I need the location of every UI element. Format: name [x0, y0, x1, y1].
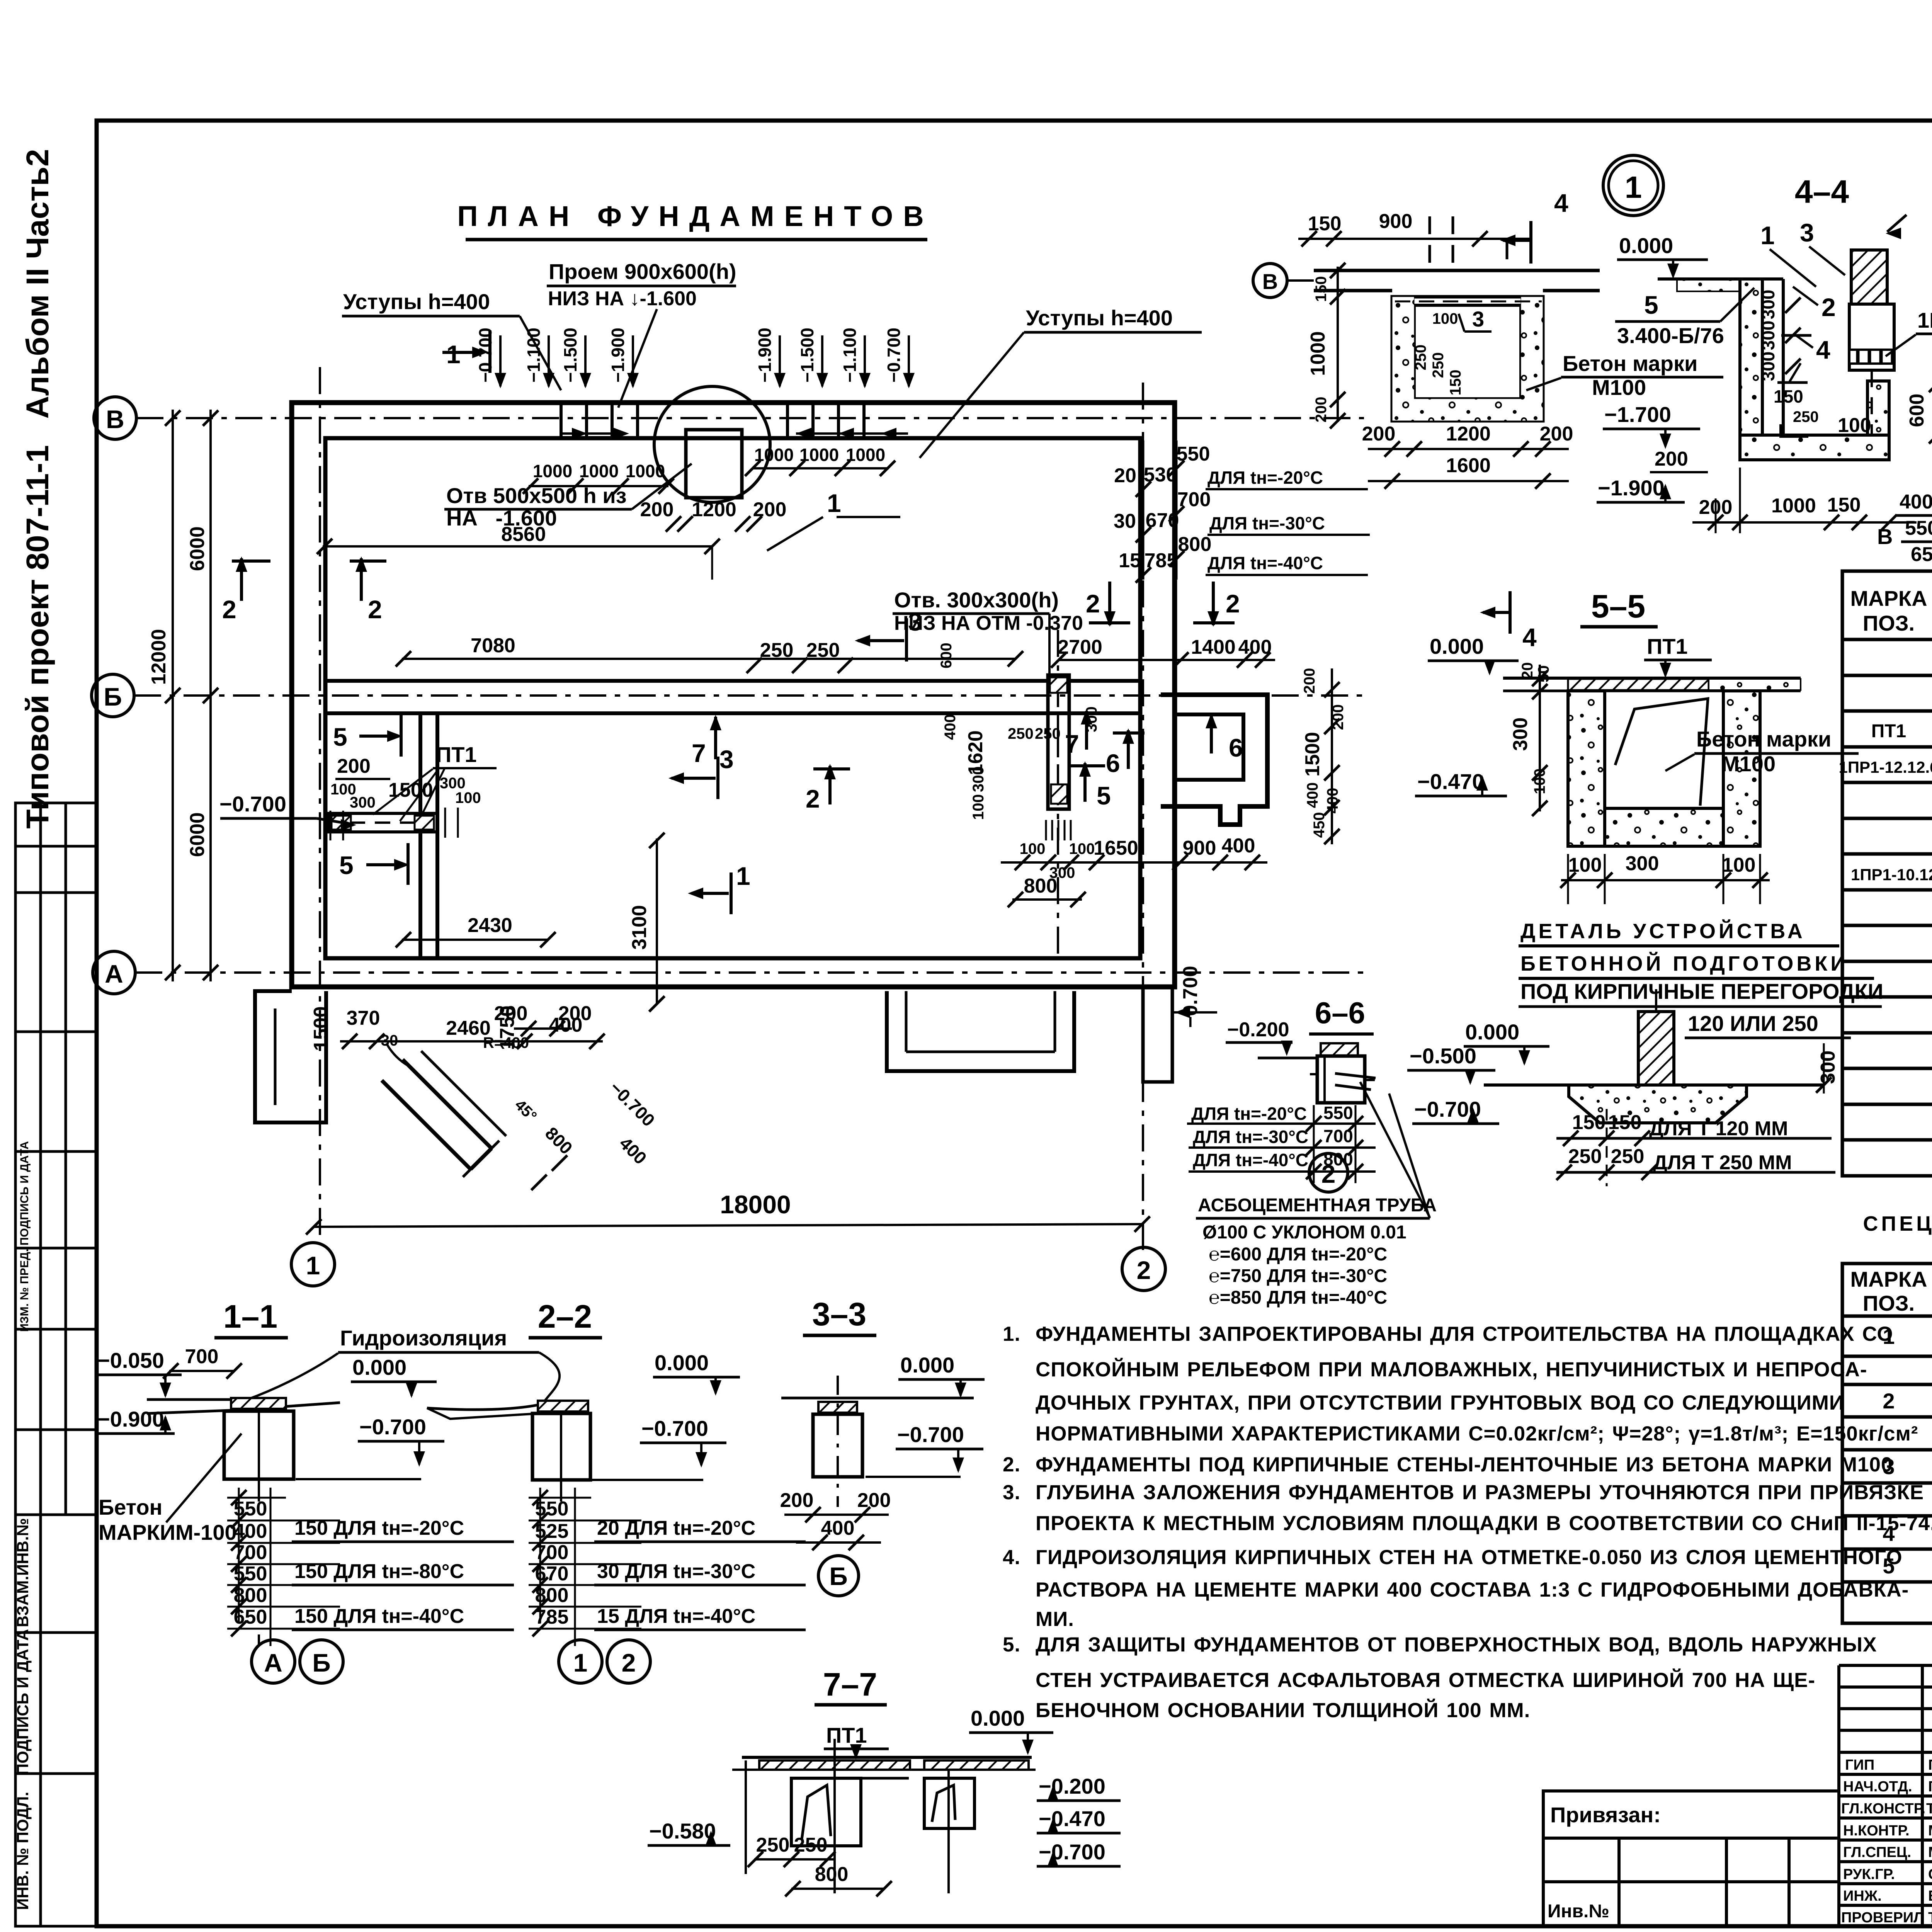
svg-text:250: 250 — [760, 639, 794, 662]
right porch — [887, 991, 1074, 1071]
left dim chain — [1337, 267, 1339, 422]
svg-text:А: А — [105, 959, 123, 988]
svg-text:7080: 7080 — [471, 634, 515, 657]
svg-text:1: 1 — [1760, 221, 1775, 250]
svg-text:250: 250 — [1568, 1145, 1602, 1168]
svg-text:ПТ1: ПТ1 — [1647, 634, 1688, 658]
svg-text:18000: 18000 — [720, 1190, 791, 1219]
svg-text:800: 800 — [1024, 875, 1058, 897]
svg-text:−0.580: −0.580 — [649, 1819, 716, 1843]
ground — [781, 1397, 974, 1400]
axis circle B detail — [1253, 264, 1287, 298]
svg-text:650-ДЛЯ t=-40°C: 650-ДЛЯ t=-40°C — [1911, 543, 1932, 566]
svg-text:800: 800 — [535, 1584, 569, 1607]
dim ladder s1 — [227, 1488, 340, 1646]
axis circle Б — [92, 674, 134, 717]
svg-text:100: 100 — [455, 789, 481, 806]
svg-text:3–3: 3–3 — [812, 1296, 866, 1332]
svg-text:−1.500: −1.500 — [797, 328, 817, 383]
svg-text:−0.500: −0.500 — [1410, 1044, 1476, 1068]
svg-text:2: 2 — [622, 1648, 636, 1677]
dim ladder s2 — [529, 1488, 641, 1646]
svg-text:ТЕЛЯКОВСКИЙ: ТЕЛЯКОВСКИЙ — [1926, 1799, 1932, 1817]
svg-text:200: 200 — [640, 498, 674, 521]
wall below Б x1100 — [418, 713, 422, 958]
svg-text:150: 150 — [1447, 370, 1464, 396]
svg-text:℮=750 ДЛЯ tн=-30°С: ℮=750 ДЛЯ tн=-30°С — [1209, 1266, 1387, 1286]
svg-text:4.: 4. — [1003, 1546, 1020, 1569]
svg-text:НАЧ.ОТД.: НАЧ.ОТД. — [1843, 1779, 1912, 1795]
svg-text:ДЕТАЛЬ УСТРОЙСТВА: ДЕТАЛЬ УСТРОЙСТВА — [1520, 919, 1806, 943]
svg-text:300: 300 — [970, 766, 987, 792]
svg-text:300: 300 — [350, 794, 376, 811]
svg-text:400: 400 — [1222, 835, 1255, 857]
svg-text:250: 250 — [1008, 725, 1034, 742]
svg-text:НОРМАТИВНЫМИ ХАРАКТЕРИСТИКАМИ: НОРМАТИВНЫМИ ХАРАКТЕРИСТИКАМИ С=0.02кг/с… — [1036, 1422, 1918, 1445]
svg-text:Бетон: Бетон — [99, 1495, 162, 1519]
ground line — [1484, 1083, 1638, 1087]
svg-text:В: В — [106, 405, 124, 434]
svg-text:ПОДПИСЬ И ДАТА: ПОДПИСЬ И ДАТА — [14, 1629, 32, 1775]
svg-text:550-ДЛЯt=-30°C: 550-ДЛЯt=-30°C — [1905, 517, 1932, 539]
svg-text:7: 7 — [692, 739, 706, 767]
svg-text:400: 400 — [942, 714, 959, 740]
top slab — [1503, 677, 1801, 680]
svg-text:ДЛЯ Т 120 ММ: ДЛЯ Т 120 ММ — [1649, 1117, 1788, 1140]
TITLE-BLOCK — [1543, 1665, 1932, 1932]
axis circle 1 — [291, 1243, 335, 1286]
elevation arrows group2 — [780, 335, 909, 386]
partition dashed above — [1430, 216, 1507, 270]
svg-text:НИЗ НА ОТМ -0.370: НИЗ НА ОТМ -0.370 — [894, 612, 1083, 634]
SPEC-TABLE — [0, 0, 0, 0]
svg-text:Типовой проект 807-11-1 Альб: Типовой проект 807-11-1 Альбом II Часть2 — [20, 149, 55, 828]
circle B — [818, 1556, 859, 1596]
ground lines — [147, 1398, 230, 1401]
svg-text:БЕТОННОЙ ПОДГОТОВКИ: БЕТОННОЙ ПОДГОТОВКИ — [1520, 952, 1849, 975]
svg-text:ПОЗ.: ПОЗ. — [1863, 1291, 1915, 1315]
svg-text:550: 550 — [535, 1498, 569, 1520]
svg-text:200: 200 — [857, 1489, 891, 1512]
diagonal drain channel — [403, 1060, 492, 1148]
ref circle 1 — [1603, 155, 1663, 216]
svg-text:−1.700: −1.700 — [1604, 402, 1671, 427]
svg-text:6–6: 6–6 — [1315, 996, 1365, 1030]
svg-text:ДЛЯ tн=-30°С: ДЛЯ tн=-30°С — [1193, 1127, 1308, 1147]
svg-text:1–1: 1–1 — [223, 1298, 277, 1335]
circles 1 2 — [559, 1640, 602, 1683]
svg-text:ТАИРОВА: ТАИРОВА — [1928, 1910, 1932, 1926]
privjazan box — [1543, 1791, 1839, 1926]
svg-text:ГИДРОИЗОЛЯЦИЯ КИРПИЧНЫХ СТЕН: ГИДРОИЗОЛЯЦИЯ КИРПИЧНЫХ СТЕН НА ОТМЕТКЕ-… — [1036, 1546, 1903, 1569]
svg-text:700: 700 — [234, 1541, 267, 1564]
svg-text:200: 200 — [780, 1489, 814, 1512]
svg-text:200: 200 — [1655, 448, 1688, 470]
svg-text:−0.050: −0.050 — [97, 1348, 164, 1372]
svg-text:1500: 1500 — [1301, 732, 1324, 777]
svg-text:1ПР1-10.12.6: 1ПР1-10.12.6 — [1851, 866, 1932, 884]
svg-text:370: 370 — [347, 1007, 380, 1029]
svg-text:Бетон марки: Бетон марки — [1563, 351, 1697, 376]
svg-text:ФУНДАМЕНТЫ ЗАПРОЕКТИРОВАНЫ Д: ФУНДАМЕНТЫ ЗАПРОЕКТИРОВАНЫ ДЛЯ СТРОИТЕЛЬ… — [1036, 1323, 1893, 1345]
svg-text:30 ДЛЯ tн=-30°C: 30 ДЛЯ tн=-30°C — [597, 1560, 755, 1583]
svg-text:ДЛЯ tн=-40°С: ДЛЯ tн=-40°С — [1193, 1150, 1308, 1170]
svg-text:800: 800 — [815, 1863, 849, 1886]
svg-text:5: 5 — [1097, 781, 1111, 810]
svg-text:250: 250 — [1793, 408, 1819, 425]
svg-text:МАРКОВ: МАРКОВ — [1928, 1844, 1932, 1861]
svg-text:785: 785 — [535, 1606, 569, 1628]
svg-text:700: 700 — [185, 1345, 219, 1368]
svg-text:ПОЗ.: ПОЗ. — [1863, 611, 1915, 635]
SECTION-7-7 — [648, 1666, 1121, 1896]
svg-text:1650: 1650 — [1094, 837, 1138, 859]
svg-text:300: 300 — [1509, 718, 1532, 751]
svg-text:7: 7 — [1065, 730, 1079, 758]
svg-text:0.000: 0.000 — [900, 1353, 954, 1377]
svg-text:400: 400 — [234, 1520, 267, 1543]
svg-text:300: 300 — [1626, 852, 1659, 875]
svg-text:R=400: R=400 — [483, 1034, 529, 1051]
svg-text:℮=600 ДЛЯ tн=-20°С: ℮=600 ДЛЯ tн=-20°С — [1209, 1244, 1387, 1265]
svg-text:12000: 12000 — [148, 629, 170, 685]
foundation block s2 — [538, 1401, 588, 1412]
svg-text:400-ДЛЯtн=-20°C: 400-ДЛЯtн=-20°C — [1900, 491, 1932, 513]
svg-text:−0.700: −0.700 — [1179, 966, 1202, 1028]
svg-text:ГОРБУНОВ: ГОРБУНОВ — [1928, 1779, 1932, 1795]
broken plate symbol — [1615, 699, 1708, 806]
signature table — [1839, 1665, 1932, 1926]
svg-text:0.000: 0.000 — [971, 1706, 1025, 1730]
svg-text:1000: 1000 — [579, 461, 619, 481]
upper stamp grid — [15, 803, 97, 1515]
svg-text:ПРОВЕРИЛ: ПРОВЕРИЛ — [1841, 1910, 1924, 1926]
axis circle 2 — [1122, 1247, 1165, 1291]
wall step lines — [561, 403, 864, 438]
svg-text:250: 250 — [1430, 352, 1447, 378]
svg-text:ПОД КИРПИЧНЫЕ ПЕРЕГОРОДКИ: ПОД КИРПИЧНЫЕ ПЕРЕГОРОДКИ — [1520, 979, 1883, 1003]
svg-text:2430: 2430 — [468, 914, 512, 937]
svg-text:100: 100 — [1432, 310, 1458, 327]
svg-text:ДЛЯ tн=-20°С: ДЛЯ tн=-20°С — [1207, 468, 1323, 488]
svg-text:2: 2 — [1821, 293, 1836, 321]
svg-text:3: 3 — [1472, 307, 1484, 331]
DETAIL-PREP — [1407, 919, 1883, 1186]
SECTION-6-6 — [1187, 996, 1430, 1217]
svg-text:Бетон марки: Бетон марки — [1696, 727, 1831, 751]
svg-text:2: 2 — [1226, 589, 1240, 618]
svg-text:−0.900: −0.900 — [97, 1407, 164, 1431]
svg-text:1400: 1400 — [1191, 636, 1236, 658]
leader to asbestos — [1360, 1082, 1430, 1217]
svg-text:20: 20 — [1519, 662, 1536, 680]
axis Б wall — [325, 679, 1140, 683]
svg-text:400: 400 — [1304, 782, 1321, 808]
svg-text:5.: 5. — [1003, 1633, 1020, 1656]
svg-text:1: 1 — [573, 1648, 588, 1677]
svg-text:100: 100 — [1722, 854, 1756, 876]
svg-text:МАРКА: МАРКА — [1850, 1267, 1927, 1291]
svg-text:1: 1 — [736, 862, 750, 890]
concrete pad — [1569, 1085, 1747, 1123]
svg-text:1000: 1000 — [626, 461, 665, 481]
svg-text:БЕНОЧНОМ ОСНОВАНИИ ТОЛЩИНОЙ: БЕНОЧНОМ ОСНОВАНИИ ТОЛЩИНОЙ 100 ММ. — [1036, 1698, 1530, 1722]
block — [1321, 1043, 1358, 1056]
svg-text:−0.700: −0.700 — [1039, 1840, 1105, 1864]
svg-text:СПОКОЙНЫМ РЕЛЬЕФОМ ПРИ МАЛОВ: СПОКОЙНЫМ РЕЛЬЕФОМ ПРИ МАЛОВАЖНЫХ, НЕПУЧ… — [1036, 1357, 1867, 1381]
svg-text:−1.100: −1.100 — [524, 328, 544, 383]
svg-text:20: 20 — [1114, 464, 1136, 487]
svg-text:200: 200 — [1540, 423, 1573, 445]
svg-text:400: 400 — [549, 1014, 583, 1036]
vertical canal with PT1 — [1048, 675, 1069, 809]
svg-text:100: 100 — [970, 794, 987, 820]
right lower step — [1143, 987, 1172, 1082]
svg-text:ИНЖ.: ИНЖ. — [1843, 1888, 1882, 1904]
NOTES — [1003, 1323, 1932, 1722]
svg-text:150: 150 — [1308, 213, 1342, 235]
svg-text:150 ДЛЯ tн=-20°С: 150 ДЛЯ tн=-20°С — [294, 1517, 464, 1539]
svg-text:6: 6 — [1229, 733, 1243, 762]
svg-text:1ПР1-12.12.6: 1ПР1-12.12.6 — [1917, 308, 1932, 332]
svg-text:600: 600 — [938, 643, 955, 668]
svg-text:ДОЧНЫХ ГРУНТАХ, ПРИ ОТСУТСТВ: ДОЧНЫХ ГРУНТАХ, ПРИ ОТСУТСТВИИ ГРУНТОВЫХ… — [1036, 1391, 1844, 1414]
left channel — [791, 1778, 861, 1846]
svg-text:120 ИЛИ 250: 120 ИЛИ 250 — [1688, 1011, 1818, 1036]
svg-text:СТЕН УСТРАИВАЕТСЯ АСФАЛЬТОВА: СТЕН УСТРАИВАЕТСЯ АСФАЛЬТОВАЯ ОТМЕСТКА Ш… — [1036, 1668, 1815, 1692]
svg-text:ГЛ.КОНСТР.: ГЛ.КОНСТР. — [1841, 1801, 1925, 1817]
svg-text:6000: 6000 — [186, 812, 209, 857]
svg-text:0.000: 0.000 — [655, 1350, 709, 1375]
svg-text:250: 250 — [806, 639, 840, 662]
svg-text:300: 300 — [1758, 352, 1778, 381]
svg-text:900: 900 — [1379, 210, 1413, 233]
floor slab — [1314, 269, 1600, 272]
svg-text:−0.200: −0.200 — [1227, 1019, 1289, 1041]
svg-text:В: В — [1262, 269, 1278, 294]
svg-text:−0.700: −0.700 — [884, 328, 904, 383]
svg-text:550: 550 — [234, 1498, 267, 1520]
svg-text:1: 1 — [1625, 170, 1642, 204]
svg-text:200: 200 — [1313, 397, 1330, 423]
svg-text:3.400-Б/76: 3.400-Б/76 — [1617, 323, 1724, 348]
grid — [1842, 1264, 1932, 1623]
svg-text:4: 4 — [1554, 189, 1568, 217]
svg-text:−0.470: −0.470 — [1417, 769, 1484, 794]
canal box — [1392, 297, 1543, 421]
svg-text:150: 150 — [1827, 494, 1861, 516]
svg-text:15: 15 — [1119, 549, 1141, 572]
svg-text:100: 100 — [1568, 854, 1602, 876]
top slabs — [742, 1756, 1032, 1759]
PLAN-ANNOT — [148, 200, 1437, 1308]
svg-text:ИНВ. № ПОДЛ.: ИНВ. № ПОДЛ. — [14, 1792, 32, 1910]
verticals — [745, 1760, 747, 1874]
svg-text:НИЗ НА ↓-1.600: НИЗ НА ↓-1.600 — [548, 287, 697, 310]
svg-text:Проем 900х600(h): Проем 900х600(h) — [549, 259, 736, 284]
SPEC-TABLE — [1838, 519, 1932, 1176]
svg-text:ГЛ.СПЕЦ.: ГЛ.СПЕЦ. — [1843, 1844, 1911, 1861]
inner wall line — [325, 438, 1140, 958]
svg-text:Уступы h=400: Уступы h=400 — [1026, 306, 1173, 330]
svg-text:ДЛЯ tн=-40°С: ДЛЯ tн=-40°С — [1207, 553, 1323, 573]
axis circle B — [94, 397, 136, 439]
svg-text:2: 2 — [806, 784, 820, 813]
svg-text:Привязан:: Привязан: — [1550, 1803, 1661, 1827]
svg-text:−0.700: −0.700 — [359, 1415, 426, 1439]
channel U walls — [1568, 691, 1605, 846]
svg-text:0.000: 0.000 — [352, 1355, 406, 1379]
svg-text:−1.100: −1.100 — [840, 328, 860, 383]
svg-text:РУК.ГР.: РУК.ГР. — [1843, 1866, 1895, 1883]
svg-text:2: 2 — [1086, 589, 1100, 618]
SECTION-5-5 — [1415, 588, 1859, 904]
left porch — [255, 991, 326, 1122]
svg-text:650: 650 — [234, 1606, 267, 1628]
svg-text:2: 2 — [1883, 1389, 1895, 1413]
svg-text:−0.700: −0.700 — [475, 328, 495, 383]
Proem circle — [654, 386, 770, 502]
svg-text:ГЛУБИНА ЗАЛОЖЕНИЯ ФУНДАМЕНТО: ГЛУБИНА ЗАЛОЖЕНИЯ ФУНДАМЕНТОВ И РАЗМЕРЫ … — [1036, 1481, 1924, 1504]
svg-text:7–7: 7–7 — [823, 1666, 877, 1702]
svg-text:1.: 1. — [1003, 1323, 1020, 1345]
svg-text:700: 700 — [535, 1541, 569, 1564]
svg-text:100: 100 — [1020, 840, 1046, 857]
svg-text:Уступы h=400: Уступы h=400 — [343, 289, 490, 314]
svg-text:200: 200 — [1362, 423, 1396, 445]
svg-text:5: 5 — [333, 723, 347, 751]
svg-text:3: 3 — [1800, 218, 1814, 247]
svg-text:6000: 6000 — [186, 526, 209, 571]
svg-text:2: 2 — [222, 595, 236, 624]
outer wall — [292, 403, 1175, 987]
svg-text:1: 1 — [446, 340, 461, 369]
svg-text:МАРКОВ: МАРКОВ — [1928, 1823, 1932, 1839]
svg-text:Ø100 С УКЛОНОМ 0.01: Ø100 С УКЛОНОМ 0.01 — [1202, 1222, 1406, 1243]
PLAN — [92, 367, 1364, 1291]
right bump-out — [1161, 695, 1267, 825]
svg-text:150 ДЛЯ tн=-80°С: 150 ДЛЯ tн=-80°С — [294, 1560, 464, 1583]
svg-text:−1.900: −1.900 — [755, 328, 775, 383]
circles A B — [252, 1640, 295, 1683]
svg-text:20 ДЛЯ tн=-20°C: 20 ДЛЯ tн=-20°C — [597, 1517, 755, 1539]
svg-text:СПЕЦИФИКАЦИЯ СТАЛИ НА ПРИЯМ: СПЕЦИФИКАЦИЯ СТАЛИ НА ПРИЯМОК — [1863, 1212, 1932, 1235]
svg-text:30: 30 — [1114, 510, 1136, 532]
PT1 channel horizontal — [329, 813, 437, 832]
svg-text:1ПР1-12.12.6: 1ПР1-12.12.6 — [1838, 758, 1932, 776]
svg-text:−1.900: −1.900 — [1598, 476, 1665, 500]
svg-text:1000: 1000 — [846, 445, 885, 465]
STEEL-TABLE — [1842, 1212, 1932, 1623]
svg-text:200: 200 — [1301, 668, 1318, 694]
U foundation left wall — [1740, 279, 1762, 435]
svg-text:−1.500: −1.500 — [560, 328, 580, 383]
ground line — [1658, 277, 1740, 281]
wall step arrows right — [796, 432, 908, 435]
svg-text:МАРКИМ-100: МАРКИМ-100 — [99, 1520, 237, 1544]
svg-text:ФУНДАМЕНТЫ ПОД КИРПИЧНЫЕ СТЕН: ФУНДАМЕНТЫ ПОД КИРПИЧНЫЕ СТЕНЫ-ЛЕНТОЧНЫЕ… — [1036, 1453, 1893, 1476]
svg-text:ПОПОВ: ПОПОВ — [1928, 1757, 1932, 1773]
right channel — [924, 1778, 975, 1828]
lintel 1PR1 — [1849, 304, 1894, 370]
svg-text:ИЗМ. № ПРЕД. ПОДПИСЬ И ДАТА: ИЗМ. № ПРЕД. ПОДПИСЬ И ДАТА — [18, 1141, 31, 1332]
svg-text:ДЛЯ tн=-20°С: ДЛЯ tн=-20°С — [1191, 1104, 1307, 1124]
svg-text:В: В — [1877, 524, 1893, 549]
svg-text:А: А — [264, 1648, 282, 1677]
svg-text:−0.200: −0.200 — [1039, 1774, 1105, 1798]
svg-text:М100: М100 — [1592, 375, 1646, 400]
svg-text:0.000: 0.000 — [1465, 1020, 1519, 1044]
SECTION-7-7 — [0, 0, 0, 0]
svg-text:8560: 8560 — [501, 523, 546, 546]
axis B dash-dot — [134, 367, 1364, 1250]
svg-text:150 ДЛЯ tн=-40°С: 150 ДЛЯ tн=-40°С — [294, 1605, 464, 1628]
svg-text:4: 4 — [1816, 335, 1830, 364]
elevation arrows group1 — [500, 335, 633, 386]
svg-text:ЕРМАКОВА: ЕРМАКОВА — [1928, 1888, 1932, 1904]
U foundation right wall — [1867, 381, 1889, 435]
STEEL-TABLE — [0, 0, 0, 0]
svg-text:3: 3 — [719, 745, 734, 774]
svg-text:600: 600 — [1906, 394, 1928, 427]
svg-text:800: 800 — [1323, 1149, 1353, 1169]
foundation block s1 — [231, 1398, 286, 1409]
svg-text:Отв. 300х300(h): Отв. 300х300(h) — [894, 588, 1059, 612]
svg-text:3100: 3100 — [628, 905, 651, 950]
svg-text:Б: Б — [829, 1562, 847, 1590]
svg-text:0.000: 0.000 — [1619, 233, 1673, 258]
svg-text:4–4: 4–4 — [1795, 173, 1849, 210]
svg-text:−0.700: −0.700 — [641, 1416, 708, 1440]
svg-text:1200: 1200 — [1446, 423, 1491, 445]
svg-text:℮=850 ДЛЯ tн=-40°С: ℮=850 ДЛЯ tн=-40°С — [1209, 1287, 1387, 1308]
SECTIONS-123 — [97, 1296, 985, 1683]
svg-text:ПЛАН ФУНДАМЕНТОВ: ПЛАН ФУНДАМЕНТОВ — [457, 200, 934, 232]
wall step arrows left — [560, 432, 626, 435]
svg-text:М100: М100 — [1721, 752, 1776, 776]
svg-text:СКОБЛИКОВ: СКОБЛИКОВ — [1928, 1866, 1932, 1883]
svg-text:Н.КОНТР.: Н.КОНТР. — [1843, 1823, 1910, 1839]
left dim chains — [172, 410, 174, 981]
svg-text:800: 800 — [234, 1584, 267, 1607]
svg-text:300: 300 — [1758, 321, 1778, 350]
svg-text:−0.700: −0.700 — [897, 1422, 964, 1447]
svg-text:1: 1 — [306, 1251, 320, 1280]
brick wall — [1638, 1012, 1674, 1085]
svg-text:АСБОЦЕМЕНТНАЯ ТРУБА: АСБОЦЕМЕНТНАЯ ТРУБА — [1198, 1195, 1437, 1216]
svg-text:250: 250 — [1412, 345, 1429, 371]
foundation block s3 — [818, 1402, 857, 1413]
LEFT-MARGIN — [14, 149, 97, 1926]
svg-text:2–2: 2–2 — [538, 1298, 592, 1335]
svg-text:1200: 1200 — [692, 498, 736, 521]
svg-text:1: 1 — [827, 489, 841, 517]
svg-text:ГИП: ГИП — [1845, 1757, 1874, 1773]
svg-text:670: 670 — [535, 1563, 569, 1585]
SECTION-6-6 — [0, 0, 0, 0]
svg-text:3.: 3. — [1003, 1481, 1020, 1504]
svg-text:5: 5 — [339, 851, 354, 879]
svg-text:Отв 500х500 h из: Отв 500х500 h из — [446, 483, 627, 508]
svg-text:1500: 1500 — [310, 1006, 332, 1051]
svg-text:5: 5 — [1644, 291, 1658, 319]
svg-text:100: 100 — [1069, 840, 1095, 857]
svg-text:200: 200 — [753, 498, 787, 521]
svg-text:ДЛЯ tн=-30°С: ДЛЯ tн=-30°С — [1209, 513, 1325, 533]
brick wall hatched — [1851, 250, 1887, 304]
svg-text:−1.900: −1.900 — [608, 328, 628, 383]
svg-text:1000: 1000 — [1771, 495, 1816, 517]
